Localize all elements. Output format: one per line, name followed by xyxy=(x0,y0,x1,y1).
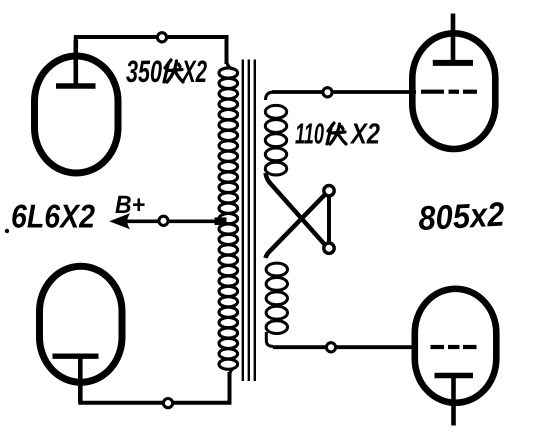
svg-text:X2: X2 xyxy=(181,54,207,89)
svg-text:B+: B+ xyxy=(115,191,145,219)
svg-text:805x2: 805x2 xyxy=(417,196,505,238)
svg-text:350: 350 xyxy=(126,54,162,89)
svg-text:6L6X2: 6L6X2 xyxy=(11,198,96,235)
svg-text:X2: X2 xyxy=(349,119,380,151)
svg-text:110: 110 xyxy=(295,119,324,151)
